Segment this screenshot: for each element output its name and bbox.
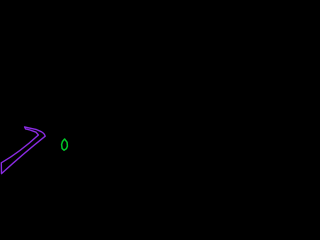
purple bent-stick outline (scythe-like sketch stroke) (1, 127, 45, 174)
green small loop (egg-shaped sketch stroke) (62, 139, 68, 150)
black canvas background (0, 0, 200, 200)
